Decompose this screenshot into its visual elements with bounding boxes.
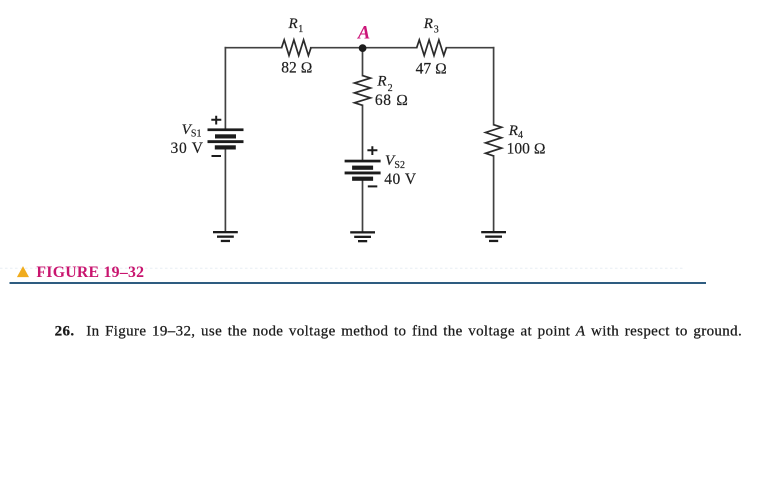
svg-text:S2: S2: [394, 160, 405, 171]
svg-text:82 Ω: 82 Ω: [281, 60, 312, 77]
svg-text:30 V: 30 V: [171, 140, 204, 157]
svg-text:FIGURE 19–32: FIGURE 19–32: [36, 264, 144, 281]
svg-text:1: 1: [298, 24, 303, 35]
svg-text:68 Ω: 68 Ω: [375, 92, 409, 109]
svg-text:4: 4: [518, 130, 523, 141]
svg-text:R: R: [376, 74, 386, 90]
svg-text:40 V: 40 V: [384, 171, 417, 188]
svg-text:R: R: [288, 16, 298, 32]
svg-text:R: R: [508, 123, 518, 139]
svg-text:R: R: [423, 16, 433, 32]
svg-text:100 Ω: 100 Ω: [507, 141, 546, 158]
svg-text:S1: S1: [191, 129, 202, 140]
svg-text:A: A: [357, 24, 370, 44]
svg-text:47 Ω: 47 Ω: [416, 60, 447, 77]
svg-text:3: 3: [434, 24, 439, 35]
svg-text:26. In Figure 19–32, use the n: 26. In Figure 19–32, use the node voltag…: [55, 324, 743, 340]
